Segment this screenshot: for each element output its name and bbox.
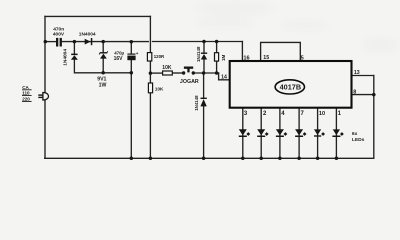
svg-text:10K: 10K [155,87,164,92]
svg-text:400V: 400V [53,32,65,38]
wire output pin 2 / LED2 [260,108,262,158]
svg-text:+: + [136,51,139,56]
pushbutton S1 JOGAR [182,67,195,75]
svg-text:JOGAR: JOGAR [180,79,199,85]
node C2 bottom [130,71,134,75]
wire 470u cap leads [130,42,132,54]
LED LED2 [257,129,268,137]
wire output pin 10 / LED5 [317,108,319,158]
wire main rail left segment [45,41,56,43]
LED LED4 [295,129,306,137]
node rail-left [44,40,48,44]
wire bridge drop to 120R [149,16,151,52]
wire left rail [44,16,46,158]
node pin8 [372,93,376,97]
svg-text:6x: 6x [352,131,358,137]
node gnd R2 [149,157,153,161]
wire zener leads [102,42,104,53]
LED LED5 [314,129,325,136]
node gnd LED3 [278,157,282,161]
wire pin15-pin5 loop [261,42,301,60]
node C2 top [130,40,134,44]
node R4 top [215,40,219,44]
IC U1 4017B [230,61,352,108]
node zener top [101,40,105,44]
svg-text:1M: 1M [221,54,226,61]
svg-text:10K: 10K [162,65,172,71]
node gnd LED1 [241,157,245,161]
node D2 top [73,40,77,44]
svg-text:110: 110 [22,91,30,96]
node gnd LED6 [335,157,339,161]
svg-text:220: 220 [22,97,30,102]
svg-text:16: 16 [243,55,249,61]
svg-text:470µ: 470µ [114,50,124,55]
wire 1N4148 no.1 leads [203,42,205,53]
wire output pin 4 / LED3 [279,108,281,158]
wire pin 8 stub [352,94,374,96]
svg-text:14: 14 [221,75,227,81]
node D3 top [202,40,206,44]
svg-text:15: 15 [263,55,269,61]
svg-text:1W: 1W [99,83,107,89]
node gnd LED4 [297,157,301,161]
svg-text:4017B: 4017B [280,82,302,91]
wire pin 13 stub [352,75,374,77]
wire 1M resistor leads [216,42,218,53]
svg-text:1N4148: 1N4148 [194,95,199,111]
LED LED1 [239,129,250,137]
node gnd D4 [202,157,206,161]
wire jog to pin 14 [219,73,230,80]
resistor R3 10K horizontal [163,71,173,75]
zener Z1 9V1 1W [99,51,108,58]
wire 120R to 10K chain [149,61,151,83]
svg-text:5: 5 [301,55,304,61]
svg-text:470n: 470n [53,26,64,32]
wire bottom rail [45,157,374,159]
node D4 clock [202,71,206,75]
wire 1N4148 no.2 leads [203,73,205,98]
diode D2 1N4004 vertical [71,54,78,60]
wire pin 16 drop [241,42,243,61]
capacitor C1 470n 400V [56,38,62,47]
resistor R1 120R [147,53,151,61]
LED LED6 [332,129,343,137]
node zener bottom [101,71,105,75]
diode D1 1N4004 horizontal [85,38,93,45]
svg-text:1N4148: 1N4148 [196,46,201,62]
wire main rail right segment [153,41,243,43]
wire right vertical (pins 13/8 to 0V) [373,76,375,159]
resistor R2 10K vertical [148,83,152,93]
svg-text:1N4004: 1N4004 [62,49,68,66]
node gnd LED2 [259,157,263,161]
node gnd C2 [130,157,134,161]
svg-text:10: 10 [319,111,325,117]
resistor R4 1M [215,53,219,61]
svg-text:120R: 120R [154,54,165,59]
diode D3 1N4148 upper [201,53,207,60]
svg-text:1N4004: 1N4004 [79,32,96,38]
svg-text:9V1: 9V1 [97,76,106,82]
wire top bridge [45,15,150,17]
diode D4 1N4148 lower [200,98,206,107]
AC plug P1 [38,93,48,101]
svg-text:LEDs: LEDs [352,137,365,143]
wire clock node horizontal [150,72,162,74]
svg-text:8: 8 [353,90,356,96]
node R4 clock [215,71,219,75]
svg-text:13: 13 [354,70,360,76]
wire output pin 7 / LED4 [298,108,300,158]
wire output pin 3 / LED1 [242,108,244,158]
node clock left [149,71,153,75]
svg-text:16V: 16V [114,56,124,62]
LED LED3 [276,129,287,137]
wire output pin 1 / LED6 [335,108,337,158]
svg-text:CA: CA [22,85,29,90]
capacitor C2 470u 16V electrolytic [127,54,135,61]
wire 1N4004 vertical diode leads + ground bus [73,42,75,54]
node gnd LED5 [316,157,320,161]
